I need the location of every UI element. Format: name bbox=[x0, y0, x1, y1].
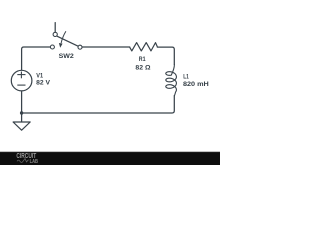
wire: resistor to top-right corner, down to inductor bbox=[157, 47, 174, 64]
inductor L1 bbox=[166, 65, 177, 96]
wire: junction to ground bbox=[21, 113, 23, 122]
svg-text:82 V: 82 V bbox=[36, 80, 51, 87]
svg-text:R1: R1 bbox=[139, 56, 146, 63]
SW2 blade bbox=[57, 36, 78, 46]
ground bbox=[13, 122, 30, 130]
resistor R1 bbox=[130, 43, 158, 51]
svg-text:820 mH: 820 mH bbox=[183, 81, 209, 88]
svg-text:LAB: LAB bbox=[30, 159, 39, 165]
wire: V1 top to switch left terminal bbox=[22, 47, 51, 70]
junction node bbox=[20, 111, 23, 114]
switch SW2 bbox=[50, 31, 82, 49]
wire: switch right terminal to resistor bbox=[82, 46, 130, 48]
watermark wave bbox=[17, 159, 29, 163]
SW2 actuation arrow bbox=[61, 31, 66, 43]
wire: switch top stub bbox=[54, 23, 56, 33]
wire: V1 bottom to junction bbox=[21, 91, 23, 113]
SW2 right terminal bbox=[78, 45, 82, 49]
svg-text:82 Ω: 82 Ω bbox=[135, 65, 150, 72]
watermark bar bbox=[0, 152, 220, 165]
svg-text:L1: L1 bbox=[183, 74, 189, 81]
voltage source V1 bbox=[11, 70, 32, 91]
SW2 left terminal bbox=[50, 45, 54, 49]
wire: inductor bottom, bottom-right corner, bottom rail to junction bbox=[22, 96, 175, 113]
SW2 top terminal bbox=[53, 32, 57, 36]
svg-text:SW2: SW2 bbox=[59, 53, 75, 60]
svg-text:V1: V1 bbox=[36, 72, 43, 79]
